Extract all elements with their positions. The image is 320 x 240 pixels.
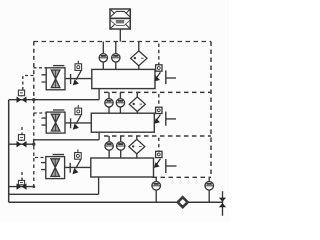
filter F1 cap <box>53 65 64 67</box>
drain line row1 <box>9 99 99 101</box>
dashed pilot branch to filter F3 <box>35 157 46 159</box>
junction node row3 <box>32 185 35 188</box>
relief valve RV2 (pilot box) <box>156 94 162 114</box>
variable restrictor VR1a arrow <box>73 71 81 85</box>
dashed pilot line x=34 row1-row2 <box>33 100 35 145</box>
dashed divider row2/row3 <box>104 135 211 137</box>
filter F1 left ports <box>42 75 47 82</box>
shutoff valve V2 line <box>9 143 34 145</box>
junction node row2 <box>32 143 35 146</box>
drain line row3 <box>9 193 99 195</box>
enclosure dashed right edge <box>210 42 212 178</box>
filter F1 <box>46 68 65 90</box>
port bar B1a <box>70 74 72 84</box>
relief valve RV1 (pilot box) <box>156 44 162 72</box>
gauge G3a <box>105 136 113 158</box>
variable restrictor VR1a (pilot box) <box>75 61 82 71</box>
filter F3 left ports <box>41 163 46 170</box>
return gauge G5 <box>205 177 214 202</box>
bottom return bus <box>9 201 223 203</box>
shutoff valve V3 line <box>9 186 34 188</box>
drain valve V4 stem <box>222 191 224 216</box>
shutoff valve V3 <box>17 183 27 189</box>
dashed pilot to valve V1 actuator <box>23 76 34 90</box>
variable restrictor VR2a arrow <box>73 115 81 129</box>
relief valve RV2 arrow <box>154 115 160 124</box>
check valve CV2 (diamond) <box>129 92 145 113</box>
drain riser row1 <box>98 89 100 100</box>
gauge G2a <box>105 92 113 113</box>
piston bar P2 <box>165 112 167 126</box>
drain line row2 <box>34 140 99 144</box>
wire filter F3 to manifold M3 <box>65 166 91 168</box>
gauge G3b <box>117 136 125 158</box>
shutoff valve V2 <box>17 141 27 147</box>
piston bar P3 <box>165 159 167 173</box>
dashed pilot branch to filter F1 <box>34 67 47 69</box>
wire manifold M3 right port <box>166 165 177 167</box>
piston bar P1 <box>165 70 167 84</box>
wire from HX1 down <box>119 29 121 42</box>
gauge G2b <box>116 92 124 113</box>
dashed pilot to valve V3 actuator <box>21 172 23 180</box>
manifold M3 <box>91 158 154 177</box>
wire filter F2 to manifold M2 <box>65 122 91 124</box>
wire manifold M1 right port <box>166 77 176 79</box>
junction node row1 <box>32 98 35 101</box>
enclosure dashed top edge <box>34 41 212 43</box>
port bar B2a <box>70 118 72 128</box>
left return bus <box>8 100 10 203</box>
dashed bottom-right edge <box>153 176 212 178</box>
filter F2 <box>46 112 65 133</box>
shutoff valve V3 actuator <box>18 180 24 184</box>
heat exchanger HX1 (top box) <box>110 9 130 29</box>
drain valve V4 <box>219 198 226 208</box>
check valve CV1 (diamond) <box>131 42 147 70</box>
wire manifold M2 right port <box>166 118 176 120</box>
drain riser row2 <box>98 132 100 140</box>
relief valve RV1 arrow <box>154 72 160 81</box>
filter F3 cap <box>53 154 64 156</box>
dashed pilot to valve V2 actuator <box>21 127 23 134</box>
port bar B3a <box>69 163 71 173</box>
check valve CV4 (bus diamond) <box>178 197 188 207</box>
manifold M1 <box>92 69 155 88</box>
drain riser row3 <box>98 177 100 194</box>
shutoff valve V1 <box>17 97 27 103</box>
manifold M2 <box>91 113 154 132</box>
dashed divider row1/row2 <box>104 91 211 93</box>
relief valve RV3 (pilot box) <box>156 138 162 158</box>
wire filter F1 to manifold M1 <box>65 78 92 80</box>
dashed pilot line x=34 row2-row3 <box>33 146 35 187</box>
check valve CV3 (diamond) <box>129 136 145 158</box>
return gauge G4 <box>152 177 161 202</box>
relief valve RV3 arrow <box>154 159 161 168</box>
dashed pilot branch to filter F2 <box>34 112 46 114</box>
shutoff valve V1 actuator <box>18 90 24 96</box>
variable restrictor VR3a (pilot box) <box>75 149 82 159</box>
variable restrictor VR3a arrow <box>72 160 80 174</box>
shutoff valve V2 actuator <box>18 135 24 141</box>
filter F2 cap <box>53 109 64 111</box>
filter F2 left ports <box>42 118 47 125</box>
gauge G1a <box>99 42 107 70</box>
enclosure dashed left edge (upper) <box>33 42 35 100</box>
variable restrictor VR2a (pilot box) <box>75 105 82 115</box>
gauge G1b <box>112 42 120 70</box>
filter F3 <box>46 157 65 179</box>
